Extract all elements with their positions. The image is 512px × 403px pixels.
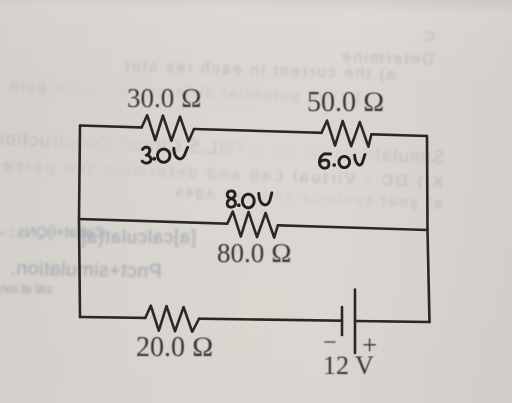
wire middle-left segment	[79, 219, 227, 224]
resistor R2 50.0 ohm	[322, 121, 372, 147]
label 30.0 ohm	[127, 83, 202, 114]
wire bottom-right segment	[355, 321, 430, 322]
handwritten 8.0V	[227, 191, 235, 207]
label 20.0 ohm	[136, 332, 214, 364]
handwritten 3.0V	[142, 147, 151, 163]
battery minus sign	[323, 330, 337, 357]
wire top-right segment	[371, 134, 427, 136]
battery plus sign	[362, 330, 377, 361]
battery B1 short plate (negative)	[341, 307, 344, 335]
wire bottom-left segment	[80, 316, 145, 319]
battery B1 long plate (positive)	[354, 290, 357, 354]
wire top-left segment	[80, 126, 142, 128]
resistor R1 30.0 ohm	[142, 115, 194, 141]
wire right vertical	[427, 136, 430, 322]
label 80.0 ohm	[217, 238, 292, 269]
resistor R4 20.0 ohm	[145, 306, 199, 332]
handwritten 6.0V	[319, 154, 330, 168]
wire bottom-middle segment	[199, 319, 342, 321]
label 12 V	[323, 351, 374, 381]
resistor R3 80.0 ohm	[227, 212, 278, 238]
ghost show-through text (mirrored)	[420, 28, 435, 45]
wire top-middle segment	[194, 129, 322, 133]
wire middle-right segment	[278, 225, 428, 230]
label 50.0 ohm	[307, 87, 385, 119]
wire left vertical	[79, 126, 80, 318]
